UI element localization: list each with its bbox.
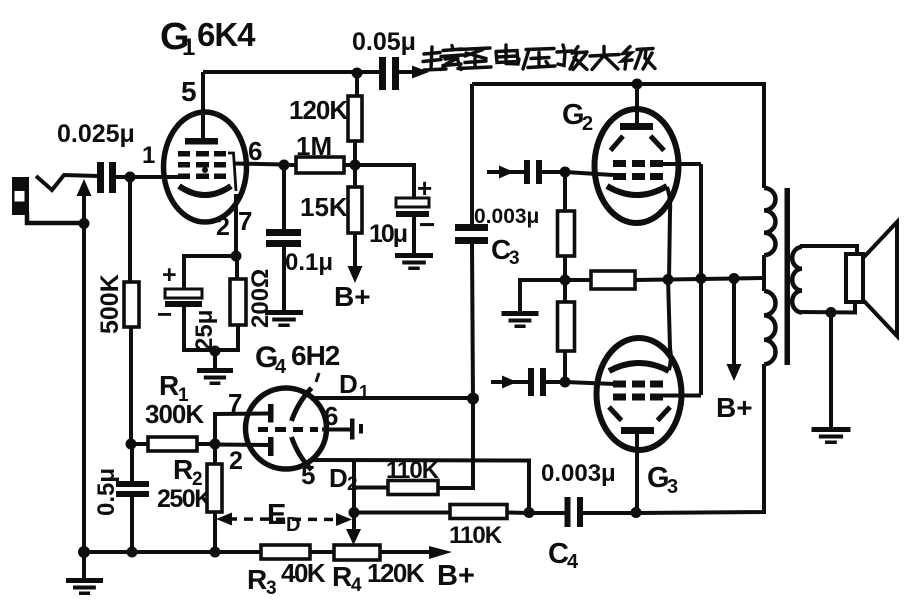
node A junction xyxy=(79,218,90,229)
wire node J up-branch to 110K a xyxy=(354,486,389,490)
wire D2 over to C4 node xyxy=(311,460,529,508)
wire R4 to B+ xyxy=(379,550,434,554)
wire to speaker ground xyxy=(829,313,833,428)
wire node L to C4 xyxy=(529,511,566,515)
G4 anode arcs xyxy=(292,388,312,421)
node M junction G3 plate xyxy=(631,507,642,518)
wire left rail down xyxy=(82,223,86,553)
G3 grid dashes xyxy=(613,381,626,388)
capacitor 0.5u xyxy=(116,481,149,487)
capacitor C4 0.003u xyxy=(565,497,571,527)
svg-text:4: 4 xyxy=(567,551,579,573)
svg-text:+: + xyxy=(162,261,177,289)
wire node D to 120K xyxy=(355,73,359,97)
svg-text:E: E xyxy=(267,499,286,531)
wire R3 to R4 xyxy=(309,550,335,554)
resistor grid a xyxy=(558,211,575,256)
G2 anode plate xyxy=(620,123,653,130)
wire G1 plate pin5 up xyxy=(201,72,205,138)
wire node F down to 0.1u xyxy=(282,165,286,231)
wire bottom rail xyxy=(84,550,262,554)
svg-text:0.5μ: 0.5μ xyxy=(93,468,120,516)
capacitor G3 grid coupling xyxy=(528,368,534,396)
svg-text:R: R xyxy=(159,370,179,401)
ground under 25u xyxy=(197,368,233,373)
wire node Q to ground xyxy=(520,280,565,312)
svg-text:120K: 120K xyxy=(367,558,425,588)
wire 200ohm to node H xyxy=(214,324,238,350)
tube G4 envelope xyxy=(246,388,327,469)
wire node F to 1M xyxy=(284,163,297,167)
wire node C down to 0.5u xyxy=(130,444,134,482)
wire G2 plate lead xyxy=(635,84,639,124)
wire node B down to 500K xyxy=(128,177,132,283)
svg-text:2: 2 xyxy=(582,113,593,135)
svg-text:250K: 250K xyxy=(157,485,212,513)
wire node E to 15K xyxy=(353,165,357,188)
wire to primary center tap xyxy=(734,276,764,281)
svg-text:0.025μ: 0.025μ xyxy=(57,120,135,148)
G4 grid dashed line xyxy=(258,427,268,432)
resistor grid b xyxy=(558,302,575,351)
node L junction xyxy=(524,507,535,518)
svg-text:R: R xyxy=(332,561,352,592)
node B junction xyxy=(125,172,136,183)
G1 anode plate xyxy=(185,138,218,145)
wire to ground xyxy=(82,552,86,579)
wire C3 up to top rail xyxy=(470,84,474,224)
svg-text:6: 6 xyxy=(248,136,262,166)
svg-text:4: 4 xyxy=(351,575,362,596)
arrow to next stage xyxy=(412,66,429,79)
G4 pin6 contact bar xyxy=(350,419,355,440)
junction bottom 0 xyxy=(78,546,90,558)
node C junction xyxy=(126,439,137,450)
ground speaker xyxy=(812,427,851,432)
node H junction xyxy=(210,346,221,357)
wire 0.5u to bottom rail xyxy=(130,497,134,553)
capacitor C_in 0.025u xyxy=(97,162,104,193)
wire node H to ground xyxy=(213,351,217,369)
wire primary center xyxy=(762,255,766,291)
resistor R4 120K potentiometer xyxy=(334,545,380,560)
wire into G3 grid xyxy=(565,382,615,384)
transformer primary winding xyxy=(764,188,776,255)
svg-text:2: 2 xyxy=(229,447,243,475)
node I junction xyxy=(210,439,221,450)
wire C_in to G1 grid pin1 xyxy=(116,175,182,179)
node N junction G2 plate xyxy=(632,79,643,90)
transformer secondary winding xyxy=(792,247,802,312)
ground mid xyxy=(502,311,539,316)
ground bottom-left xyxy=(66,578,103,583)
wire G1 cathode pins 2,7 down xyxy=(234,194,238,257)
wire node G to 200ohm xyxy=(235,256,239,280)
wire into G2 grid xyxy=(565,172,613,175)
svg-text:0.003μ: 0.003μ xyxy=(541,460,616,487)
svg-text:25μ: 25μ xyxy=(191,310,218,351)
wire top rail right block xyxy=(472,84,764,188)
resistor 120K xyxy=(348,96,362,141)
resistor 110K b xyxy=(450,505,507,519)
node P junction G2 grid xyxy=(560,167,571,178)
note: connect to voltage amplifier stage xyxy=(423,45,655,70)
wire secondary bottom to speaker xyxy=(802,303,855,313)
wire node E to 10u xyxy=(355,165,414,200)
svg-text:6K4: 6K4 xyxy=(197,16,256,53)
wire to next stage xyxy=(398,70,415,74)
capacitor 0.05u xyxy=(379,57,386,90)
svg-text:−: − xyxy=(157,299,172,329)
svg-text:0.003μ: 0.003μ xyxy=(474,205,539,228)
svg-text:D: D xyxy=(286,514,300,536)
node J junction xyxy=(349,507,360,518)
svg-text:40K: 40K xyxy=(281,558,326,588)
svg-text:3: 3 xyxy=(509,248,520,269)
resistor R3 40K xyxy=(261,545,310,559)
node K junction D1 xyxy=(467,393,479,405)
tube G1 envelope xyxy=(164,112,247,222)
wire 0.1u to ground xyxy=(282,246,286,311)
resistor 500K xyxy=(124,282,139,327)
wire node J to 110K b xyxy=(354,511,451,515)
resistor 110K a xyxy=(388,481,438,495)
G2 cathode arc xyxy=(607,186,667,195)
svg-text:4: 4 xyxy=(275,356,287,378)
svg-text:B+: B+ xyxy=(334,281,371,312)
wire node S to B+ node xyxy=(668,279,735,280)
svg-text:1: 1 xyxy=(142,142,155,169)
node D junction xyxy=(352,68,363,79)
wire C3 down to node K xyxy=(472,244,473,399)
wire secondary top to speaker xyxy=(802,246,857,256)
speaker driver xyxy=(846,254,863,302)
resistor 1M xyxy=(296,157,344,173)
G3 grid input arrow xyxy=(491,380,529,384)
capacitor G2 grid coupling xyxy=(524,160,530,184)
wire node P to grid resistor a xyxy=(563,172,567,212)
svg-text:110K: 110K xyxy=(449,522,503,549)
svg-text:110K: 110K xyxy=(386,457,440,484)
capacitor C3 0.003u xyxy=(455,224,488,231)
node T junction B+ xyxy=(729,273,740,284)
wire D2 branch down to node J xyxy=(352,459,356,508)
wire node Q to grid resistor b xyxy=(563,280,567,303)
resistor 15K xyxy=(348,187,362,233)
G3 beam plates xyxy=(609,407,622,421)
wire 15K to B+ xyxy=(353,233,357,269)
svg-text:B+: B+ xyxy=(437,560,475,592)
svg-text:120K: 120K xyxy=(289,95,348,125)
G2 beam plates xyxy=(611,136,624,151)
svg-text:7: 7 xyxy=(238,206,252,236)
tube G2 envelope xyxy=(595,109,679,223)
G2 grid input arrow xyxy=(487,170,525,174)
resistor 200ohm xyxy=(230,279,246,325)
svg-text:+: + xyxy=(417,173,432,203)
wire G3 plate lead xyxy=(635,434,639,513)
wire to G4 pin7 plate xyxy=(215,414,268,445)
wire jack sleeve to node A xyxy=(27,212,84,223)
speaker cone xyxy=(863,222,897,336)
ground under 0.1u xyxy=(265,310,303,315)
junction screen rail xyxy=(696,273,707,284)
arrow B+ bottom xyxy=(429,546,452,559)
G4 tick mark xyxy=(316,373,319,382)
svg-text:6H2: 6H2 xyxy=(291,340,340,371)
svg-text:R: R xyxy=(173,454,193,485)
svg-text:5: 5 xyxy=(181,76,197,107)
node E junction xyxy=(350,160,361,171)
wire 25u to node H xyxy=(184,306,216,350)
svg-text:R: R xyxy=(247,564,267,595)
ground under 10u xyxy=(395,253,433,258)
wire G1 plate rail xyxy=(203,70,357,74)
R4 wiper arrow xyxy=(352,512,356,531)
tube G3 envelope xyxy=(597,338,682,450)
node S junction xyxy=(663,274,674,285)
wire to 25u xyxy=(184,256,236,291)
G2 grid dashes xyxy=(613,160,626,167)
svg-text:2: 2 xyxy=(216,213,230,241)
G2 cathode lead xyxy=(667,187,670,280)
capacitor 10u electrolytic xyxy=(396,198,429,207)
wire 120K to node E xyxy=(353,141,357,166)
capacitor 0.1u xyxy=(266,229,301,236)
wire screen rail xyxy=(699,164,703,395)
wire 110K a to node K xyxy=(437,399,473,488)
node Q junction xyxy=(560,275,571,286)
svg-text:6: 6 xyxy=(324,401,338,431)
B+ arrow right xyxy=(732,279,736,366)
svg-text:3: 3 xyxy=(266,578,277,599)
transformer core xyxy=(785,188,791,365)
G3 cathode arc xyxy=(609,363,669,371)
svg-text:B+: B+ xyxy=(716,392,753,423)
junction bottom 2 xyxy=(210,547,221,558)
potentiometer wiper arrow (volume) xyxy=(77,179,92,196)
svg-text:C: C xyxy=(548,538,569,570)
wire 500K to node C xyxy=(129,327,133,445)
capacitor 25u electrolytic xyxy=(165,289,202,298)
svg-text:D: D xyxy=(339,369,358,399)
wire 10u to ground xyxy=(412,216,416,254)
input jack J xyxy=(12,177,29,215)
wire G1 pin6 out xyxy=(233,164,284,165)
svg-text:−: − xyxy=(419,209,435,240)
svg-text:5: 5 xyxy=(301,460,315,490)
node R junction G3 grid xyxy=(560,377,571,388)
svg-text:D: D xyxy=(329,463,348,493)
wire to G4 pin2 plate xyxy=(215,443,268,448)
junction bottom 1 xyxy=(127,547,138,558)
wire D1 to node K xyxy=(311,396,468,400)
wire G3 screen out xyxy=(663,394,701,398)
junction speaker ground xyxy=(826,307,837,318)
node F junction pin6 xyxy=(279,160,290,171)
svg-text:15K: 15K xyxy=(300,192,348,222)
svg-text:500K: 500K xyxy=(96,274,124,334)
wire G2 screen out xyxy=(663,162,701,166)
arrow B+ feed xyxy=(348,266,363,283)
wire jack tip hook to C_in xyxy=(36,175,98,190)
svg-text:0.05μ: 0.05μ xyxy=(352,28,416,56)
resistor cathode bias xyxy=(565,278,592,282)
node G junction cathode xyxy=(231,251,242,262)
svg-text:300K: 300K xyxy=(145,399,204,429)
svg-text:1: 1 xyxy=(182,34,195,61)
G1 screen lead bracket xyxy=(228,153,236,191)
wire to transformer primary bottom xyxy=(636,364,764,513)
G1 cathode arc xyxy=(179,186,231,195)
G3 anode plate xyxy=(621,427,654,434)
G3 cathode lead xyxy=(668,278,671,370)
svg-text:10μ: 10μ xyxy=(369,220,407,248)
G4 diode plate bars xyxy=(268,404,274,423)
E_D measurement dashed arrows xyxy=(228,517,341,521)
svg-text:0.1μ: 0.1μ xyxy=(285,249,333,276)
svg-text:3: 3 xyxy=(667,476,678,498)
G1 grid dashes xyxy=(178,151,190,157)
wire G4 pin6 out xyxy=(322,428,351,432)
svg-text:1M: 1M xyxy=(296,131,332,161)
svg-text:200Ω: 200Ω xyxy=(247,269,274,328)
